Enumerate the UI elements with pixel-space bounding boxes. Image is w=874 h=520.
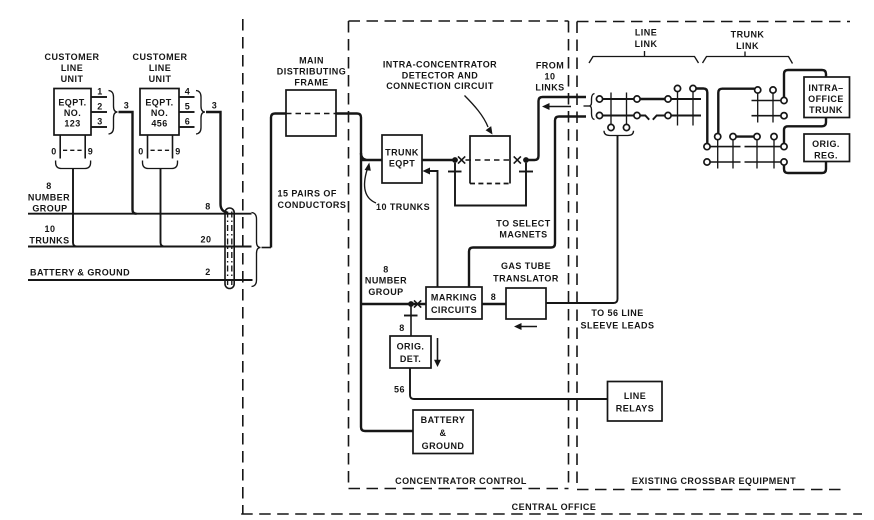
svg-text:8: 8 bbox=[383, 265, 388, 275]
svg-text:DISTRIBUTING: DISTRIBUTING bbox=[277, 67, 346, 77]
trunk link lower contact L2 bbox=[730, 134, 736, 140]
wire gas tube to 56 line sleeve leads bbox=[546, 136, 618, 303]
select magnet armature tick right bbox=[519, 171, 533, 173]
svg-text:456: 456 bbox=[151, 119, 167, 129]
U2 trunk stub 5 bbox=[179, 111, 195, 113]
svg-text:EXISTING CROSSBAR EQUIPMENT: EXISTING CROSSBAR EQUIPMENT bbox=[632, 476, 796, 486]
label to 56 line sleeve leads bbox=[581, 308, 655, 331]
svg-text:REG.: REG. bbox=[814, 151, 838, 161]
line link contact B1 bbox=[634, 96, 640, 102]
svg-text:UNIT: UNIT bbox=[61, 74, 84, 84]
svg-text:3: 3 bbox=[212, 101, 217, 111]
svg-text:EQPT.: EQPT. bbox=[145, 98, 173, 108]
svg-text:CONCENTRATOR CONTROL: CONCENTRATOR CONTROL bbox=[395, 476, 527, 486]
svg-text:MARKING: MARKING bbox=[431, 293, 477, 303]
existing crossbar boundary bbox=[577, 22, 850, 490]
armature tick orig det bbox=[404, 315, 418, 317]
line link hold contact E2 bbox=[623, 124, 629, 130]
trunk link upper contact T4 bbox=[781, 113, 787, 119]
battery and ground box bbox=[413, 410, 473, 454]
line link vertical V2 bbox=[626, 93, 628, 125]
wire trunk eqpt feedback from marking circuits bbox=[423, 168, 438, 288]
wire trunk line eqpt to detector bbox=[422, 159, 455, 161]
U1 terminals 0-9 bbox=[51, 135, 93, 159]
customer line unit U1 label bbox=[45, 52, 100, 84]
svg-text:TO 56 LINE: TO 56 LINE bbox=[591, 308, 643, 318]
main distributing frame box bbox=[286, 90, 336, 136]
svg-text:CUSTOMER: CUSTOMER bbox=[133, 52, 188, 62]
wire detector line to links riser bbox=[526, 97, 586, 160]
line link contact B2 bbox=[634, 112, 640, 118]
wire lower trunk row2 left bbox=[710, 161, 740, 163]
svg-text:TRUNK: TRUNK bbox=[385, 148, 419, 158]
label 8 number group left bbox=[28, 181, 70, 214]
svg-text:1: 1 bbox=[97, 87, 102, 97]
svg-text:8: 8 bbox=[491, 292, 496, 302]
svg-text:NO.: NO. bbox=[151, 108, 168, 118]
trunk link lower contact L1 bbox=[715, 134, 721, 140]
svg-text:LINE: LINE bbox=[61, 63, 83, 73]
U2 under-bracket bbox=[143, 161, 178, 169]
label gas tube translator bbox=[493, 261, 559, 284]
orig reg box bbox=[804, 134, 850, 162]
wire lower trunk row2 right bbox=[745, 161, 781, 163]
trunk link lower vertical V10 bbox=[773, 140, 775, 169]
orig det box bbox=[390, 336, 431, 368]
wire battery ground line bbox=[28, 279, 253, 281]
junction dot right contact bbox=[523, 157, 529, 163]
line link contact A1 bbox=[596, 96, 602, 102]
svg-text:GROUND: GROUND bbox=[422, 441, 465, 451]
svg-text:10: 10 bbox=[545, 72, 556, 82]
label line link bbox=[635, 28, 658, 50]
svg-text:CIRCUITS: CIRCUITS bbox=[431, 305, 477, 315]
line link vertical V3 bbox=[677, 92, 679, 126]
svg-text:INTRA-CONCENTRATOR: INTRA-CONCENTRATOR bbox=[383, 60, 497, 70]
svg-text:GAS TUBE: GAS TUBE bbox=[501, 261, 551, 271]
wire line link to trunk link path B bbox=[718, 89, 754, 134]
wire intra-office trunk to lower trunk link bbox=[784, 118, 826, 144]
trunk link lower vertical V8 bbox=[732, 140, 734, 169]
junction dot number group bbox=[408, 301, 414, 307]
wire trunk pair line to trunk eqpt bbox=[361, 153, 382, 160]
wire number group to marking circuits bbox=[361, 303, 426, 305]
svg-text:EQPT: EQPT bbox=[389, 159, 415, 169]
trunk link lower vertical V9 bbox=[756, 140, 758, 169]
trunk eqpt box bbox=[382, 135, 422, 183]
wire U1 3-trunk lead to number group line bbox=[119, 112, 137, 214]
svg-text:0: 0 bbox=[138, 147, 143, 157]
wire lower trunk jumper bbox=[736, 135, 754, 137]
wire line link row1 thick jumper bbox=[640, 98, 665, 100]
svg-text:MAIN: MAIN bbox=[299, 56, 324, 66]
U1 trunk stub 3 bbox=[91, 126, 107, 128]
line link contact C2 bbox=[665, 112, 671, 118]
svg-text:8: 8 bbox=[46, 181, 51, 191]
trunk link upper vertical V6 bbox=[772, 93, 774, 122]
svg-text:LINE: LINE bbox=[149, 63, 171, 73]
svg-text:DET.: DET. bbox=[400, 354, 421, 364]
wire U2 3-trunk lead to number group line bbox=[206, 112, 227, 213]
wire line link row2 right bbox=[671, 115, 701, 117]
svg-text:TRANSLATOR: TRANSLATOR bbox=[493, 274, 559, 284]
svg-text:FRAME: FRAME bbox=[294, 78, 328, 88]
svg-text:LINK: LINK bbox=[635, 39, 658, 49]
wire line link row1 left bbox=[603, 98, 634, 100]
svg-text:CONDUCTORS: CONDUCTORS bbox=[278, 200, 347, 210]
junction dot left contact bbox=[452, 157, 458, 163]
wire trunk upper row1 bbox=[752, 100, 781, 102]
svg-text:4: 4 bbox=[185, 87, 190, 97]
trunk link upper contact T2 bbox=[770, 87, 776, 93]
svg-text:TO SELECT: TO SELECT bbox=[496, 219, 550, 229]
trunk link lower contact L3 bbox=[754, 134, 760, 140]
svg-text:MAGNETS: MAGNETS bbox=[499, 230, 547, 240]
intra-office trunk box bbox=[804, 77, 850, 118]
concentrator control boundary bbox=[349, 21, 569, 489]
label trunk link bbox=[731, 30, 765, 52]
svg-text:20: 20 bbox=[201, 235, 212, 245]
line link contact A2 bbox=[596, 112, 602, 118]
svg-text:6: 6 bbox=[185, 117, 190, 127]
wire lower trunk row1 right bbox=[745, 146, 781, 148]
trunk link lower contact L5 bbox=[704, 144, 710, 150]
U2 brace bbox=[196, 91, 205, 135]
svg-text:NUMBER: NUMBER bbox=[365, 276, 407, 286]
line link contact D1 bbox=[674, 85, 680, 91]
line relays box bbox=[608, 382, 663, 422]
svg-text:LINE: LINE bbox=[624, 391, 646, 401]
wire U1 number-group stem bbox=[73, 169, 77, 247]
select magnet armature tick left bbox=[448, 171, 462, 173]
wire line link row2 left bbox=[603, 115, 634, 117]
marking circuits box bbox=[426, 287, 482, 319]
wire trunk upper row2 bbox=[752, 115, 781, 117]
wire to intra-office trunk bbox=[784, 70, 826, 97]
svg-text:INTRA–: INTRA– bbox=[808, 83, 843, 93]
wire orig det to line relays bbox=[410, 368, 608, 399]
arrow 10 trunks pointer bbox=[365, 163, 376, 204]
svg-text:15 PAIRS OF: 15 PAIRS OF bbox=[278, 189, 337, 199]
wire select loop under detector bbox=[455, 163, 526, 206]
wire dashed through MDF bbox=[286, 113, 336, 115]
wire line link to trunk link path A bbox=[696, 89, 707, 144]
label from 10 links bbox=[535, 61, 564, 93]
customer line unit U2 label bbox=[133, 52, 188, 84]
wire line link row2 break symbol bbox=[640, 116, 665, 120]
U2 trunk stub 4 bbox=[179, 96, 195, 98]
wire number group line bbox=[28, 213, 252, 215]
svg-text:DETECTOR AND: DETECTOR AND bbox=[402, 71, 478, 81]
intra-concentrator detector label bbox=[383, 60, 497, 92]
svg-text:BATTERY: BATTERY bbox=[421, 415, 466, 425]
svg-text:3: 3 bbox=[124, 101, 129, 111]
svg-text:NUMBER: NUMBER bbox=[28, 193, 70, 203]
central office boundary bottom bbox=[241, 513, 862, 515]
svg-text:RELAYS: RELAYS bbox=[616, 404, 654, 414]
svg-text:10: 10 bbox=[45, 224, 56, 234]
trunk link upper contact T1 bbox=[755, 87, 761, 93]
svg-text:TRUNKS: TRUNKS bbox=[29, 236, 69, 246]
arrow detector label pointer bbox=[465, 96, 493, 135]
svg-text:TRUNK: TRUNK bbox=[731, 30, 765, 40]
svg-text:5: 5 bbox=[185, 102, 190, 112]
central office boundary left bbox=[242, 19, 244, 514]
wire brace to cable bbox=[262, 247, 272, 249]
line link vertical V4 bbox=[692, 92, 694, 126]
main distributing frame label bbox=[277, 56, 346, 88]
svg-text:LINKS: LINKS bbox=[535, 83, 564, 93]
U2 trunk stub 6 bbox=[179, 126, 195, 128]
svg-text:NO.: NO. bbox=[64, 108, 81, 118]
U2 terminals 0-9 bbox=[138, 135, 180, 159]
label 15 pairs of conductors bbox=[278, 189, 347, 211]
svg-text:&: & bbox=[440, 428, 447, 438]
svg-text:10 TRUNKS: 10 TRUNKS bbox=[376, 202, 430, 212]
svg-text:TRUNK: TRUNK bbox=[809, 105, 843, 115]
line link hold contact E1 bbox=[608, 124, 614, 130]
svg-text:CENTRAL OFFICE: CENTRAL OFFICE bbox=[512, 502, 597, 512]
arrow from links direction bbox=[542, 103, 571, 110]
wire trunks line bbox=[28, 246, 252, 248]
trunk link lower contact L4 bbox=[771, 134, 777, 140]
svg-text:CUSTOMER: CUSTOMER bbox=[45, 52, 100, 62]
U1 stub labels 1 2 3 bbox=[97, 87, 102, 127]
svg-text:LINK: LINK bbox=[736, 41, 759, 51]
svg-text:LINE: LINE bbox=[635, 28, 657, 38]
line link contact C1 bbox=[665, 96, 671, 102]
wire U2 number-group stem bbox=[161, 169, 165, 247]
line link under-bracket bbox=[604, 131, 634, 136]
svg-text:SLEEVE LEADS: SLEEVE LEADS bbox=[581, 321, 655, 331]
line link vertical V1 bbox=[610, 93, 612, 125]
label to select magnets bbox=[496, 219, 550, 240]
svg-text:2: 2 bbox=[97, 102, 102, 112]
svg-text:ORIG.: ORIG. bbox=[397, 342, 425, 352]
crosspoint X number group bbox=[414, 300, 421, 307]
U1 trunk stub 1 bbox=[91, 96, 107, 98]
wire MDF to junction riser and battery feed bbox=[336, 114, 413, 432]
U2 stub labels 4 5 6 bbox=[185, 87, 190, 127]
trunk link upper vertical V5 bbox=[757, 93, 759, 122]
svg-text:BATTERY & GROUND: BATTERY & GROUND bbox=[30, 268, 130, 278]
trunk link brace bbox=[703, 52, 793, 64]
trunk link lower contact L8 bbox=[781, 159, 787, 165]
trunk link lower contact L6 bbox=[704, 159, 710, 165]
trunk link upper contact T3 bbox=[781, 97, 787, 103]
svg-text:123: 123 bbox=[64, 119, 80, 129]
line link brace bbox=[589, 51, 699, 63]
customer line unit U2 box EQPT NO 456 bbox=[140, 89, 179, 136]
svg-text:56: 56 bbox=[394, 385, 405, 395]
wire orig reg to lower trunk link bbox=[784, 162, 826, 174]
crosspoint X left bbox=[458, 156, 465, 163]
wire lower trunk row1 left bbox=[710, 146, 740, 148]
svg-text:3: 3 bbox=[97, 117, 102, 127]
label 10 trunks left bbox=[29, 224, 69, 246]
svg-text:EQPT.: EQPT. bbox=[58, 98, 86, 108]
detector and connection circuit box bbox=[470, 136, 510, 184]
svg-text:CONNECTION CIRCUIT: CONNECTION CIRCUIT bbox=[386, 81, 494, 91]
wire dashed through detector bbox=[466, 159, 514, 161]
svg-text:FROM: FROM bbox=[536, 61, 564, 71]
line link contact D2 bbox=[690, 85, 696, 91]
trunk link lower vertical V7 bbox=[717, 140, 719, 169]
arrow gas tube direction bbox=[514, 323, 537, 330]
wire dot to orig det bbox=[410, 304, 412, 336]
svg-text:ORIG.: ORIG. bbox=[812, 139, 840, 149]
wire 15-pairs cable riser bbox=[271, 114, 286, 248]
svg-text:9: 9 bbox=[175, 147, 180, 157]
brace grouping 3 lines bbox=[252, 213, 261, 287]
wire marking to gas tube bbox=[482, 303, 506, 305]
svg-text:0: 0 bbox=[51, 147, 56, 157]
svg-text:2: 2 bbox=[205, 267, 210, 277]
svg-text:8: 8 bbox=[205, 202, 210, 212]
arrow orig det direction bbox=[434, 338, 441, 367]
svg-text:GROUP: GROUP bbox=[32, 204, 67, 214]
trunk link lower contact L7 bbox=[781, 144, 787, 150]
wire bracket stem to 56 sleeve line bbox=[617, 136, 619, 141]
label 8 number group bbox=[365, 265, 407, 298]
svg-text:9: 9 bbox=[88, 147, 93, 157]
gas tube translator box bbox=[506, 288, 546, 319]
links input bracket bbox=[584, 94, 595, 120]
U1 trunk stub 2 bbox=[91, 111, 107, 113]
svg-text:OFFICE: OFFICE bbox=[808, 94, 844, 104]
cable sheath oval bbox=[225, 208, 234, 289]
svg-text:GROUP: GROUP bbox=[368, 287, 403, 297]
U1 under-bracket bbox=[56, 161, 91, 169]
svg-text:8: 8 bbox=[399, 323, 404, 333]
wire line link row1 right bbox=[671, 98, 701, 100]
svg-text:UNIT: UNIT bbox=[149, 74, 172, 84]
customer line unit U1 box EQPT NO 123 bbox=[54, 89, 91, 136]
crosspoint X right bbox=[514, 156, 521, 163]
U1 brace bbox=[109, 91, 118, 135]
wire from links sleeve stub to select magnets path bbox=[469, 117, 586, 288]
